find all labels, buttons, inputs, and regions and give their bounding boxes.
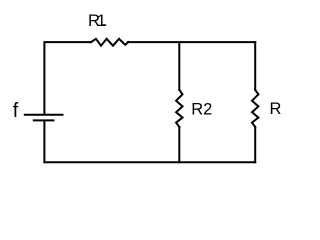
svg-text:R: R — [270, 100, 282, 118]
wire left-lower segment — [43, 121, 45, 162]
battery f short plate — [34, 119, 54, 121]
wire bottom segment — [44, 161, 255, 163]
wire right-lower segment — [254, 127, 256, 162]
svg-text:1: 1 — [97, 12, 106, 30]
wire top-right segment — [128, 41, 255, 43]
svg-text:f: f — [13, 100, 19, 122]
resistor R1 — [91, 39, 128, 46]
svg-text:R2: R2 — [191, 100, 212, 118]
wire middle-lower segment — [178, 127, 180, 162]
wire right-upper segment — [254, 42, 256, 90]
battery f long plate — [25, 114, 63, 116]
wire top-left segment — [44, 42, 91, 114]
resistor R — [252, 90, 258, 127]
wire middle-upper segment — [178, 42, 180, 90]
resistor R2 — [176, 90, 182, 127]
